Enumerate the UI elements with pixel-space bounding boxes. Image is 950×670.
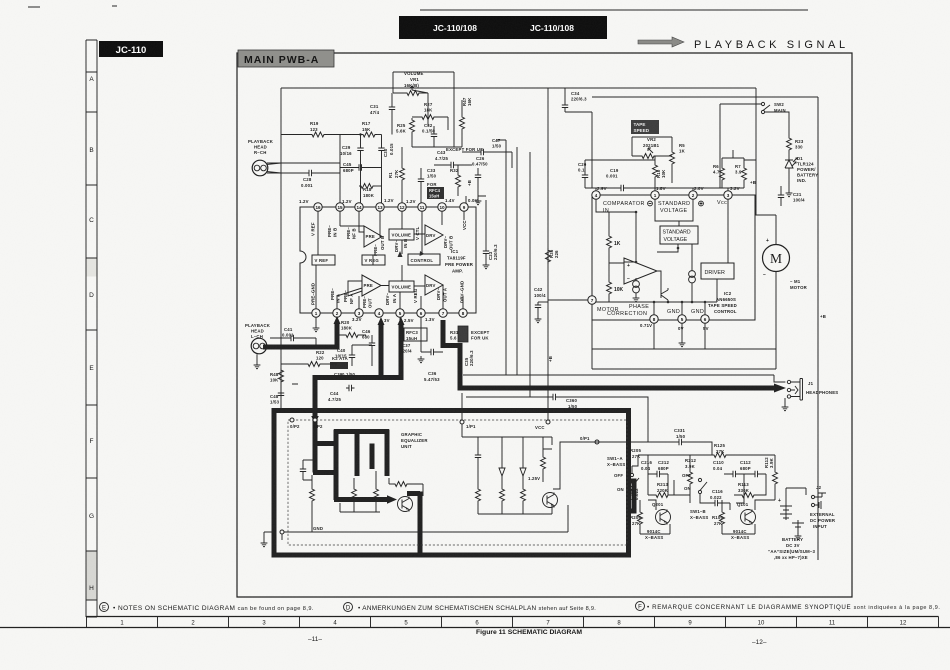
tape speed label	[631, 120, 659, 134]
pin 3	[724, 191, 732, 199]
pin 1	[651, 191, 659, 199]
capacitor C29	[340, 135, 364, 204]
pin 5	[678, 315, 686, 323]
resistor R23	[787, 136, 804, 157]
EQ diodes	[499, 468, 526, 476]
capacitor C21	[778, 174, 805, 206]
capacitor C40	[335, 345, 355, 366]
capacitor C19	[606, 168, 627, 191]
v ref block	[312, 255, 335, 265]
wire thick meander entry arrow	[313, 412, 318, 473]
capacitor C116	[710, 489, 723, 506]
node 0/P2	[290, 418, 294, 422]
capacitor C206 rotated	[629, 488, 639, 500]
EQ capacitor	[300, 466, 306, 475]
switch SW1-A	[607, 455, 639, 492]
wire thick after EQ transistor	[407, 492, 420, 556]
row letters A-H	[89, 76, 94, 592]
pin 8	[650, 315, 658, 323]
pin 12	[398, 203, 406, 211]
resistor R27	[412, 102, 448, 130]
node 0/P1	[595, 440, 599, 444]
trimmer VR2	[632, 137, 672, 159]
bottom labels	[597, 304, 704, 317]
capacitor C110	[713, 460, 744, 477]
wire thick pin7 to headphones	[441, 320, 461, 388]
jack J2	[811, 495, 814, 498]
wire y97 inner	[592, 97, 818, 560]
pin 11	[418, 203, 426, 211]
transistor Q201	[656, 510, 671, 525]
v reg block	[362, 255, 385, 265]
JC-110 model box top-left	[99, 41, 163, 57]
op-amp comparator triangle	[624, 258, 657, 284]
switch SW2	[720, 102, 789, 188]
capacitor C37	[400, 343, 437, 355]
resistor R212	[685, 455, 696, 495]
pin 10	[438, 203, 446, 211]
resistor R213	[648, 482, 674, 498]
playback head R-CH	[248, 139, 340, 176]
standard voltage block	[660, 226, 698, 244]
volume pot VR1	[393, 71, 454, 147]
inductor RFC4	[427, 187, 444, 199]
wire from pin9 region across	[421, 140, 506, 203]
EQ resistors	[310, 487, 315, 503]
control block	[408, 254, 440, 265]
capacitor C34	[562, 91, 587, 112]
EQ transistor Q	[398, 497, 413, 512]
node 1/P2	[313, 418, 317, 422]
pin 5	[396, 309, 404, 317]
trimmer K2	[330, 356, 348, 369]
pin 6	[417, 309, 425, 317]
resistor R48	[270, 368, 284, 384]
capacitor C41	[270, 327, 316, 346]
capacitor C39	[334, 372, 356, 377]
IC1 name label	[445, 249, 474, 274]
capacitor C36	[424, 371, 440, 382]
capacitor C45	[340, 162, 382, 173]
capacitor C331	[562, 428, 712, 455]
figure caption	[308, 629, 767, 646]
current source mid	[689, 271, 696, 278]
capacitor C43	[434, 150, 472, 168]
wire top rail	[281, 88, 756, 408]
op-amp PRE A	[362, 275, 381, 296]
driver block	[701, 263, 734, 279]
wire thick to EQ transistor	[334, 497, 388, 502]
pin 13	[376, 203, 384, 211]
capacitor C46	[362, 329, 375, 356]
wires above IC2	[565, 88, 756, 215]
bottom rail of IC2	[592, 272, 776, 370]
capacitor C30	[378, 135, 394, 204]
pin 8	[459, 309, 467, 317]
pin 3	[355, 309, 363, 317]
resistor R32	[450, 165, 461, 196]
pin 9	[460, 203, 468, 211]
capacitor C112	[740, 460, 766, 477]
pin labels bottom row	[311, 281, 465, 308]
resistor R36 rotated	[546, 248, 560, 264]
resistor R25	[396, 118, 415, 147]
resistor R10	[653, 156, 667, 188]
resistor R18	[359, 184, 382, 199]
capacitor C35 rotated	[464, 350, 474, 366]
pin 7	[588, 296, 596, 304]
capacitor C23	[483, 200, 498, 269]
pin 4	[375, 309, 383, 317]
motor M1	[755, 215, 808, 290]
wires joining	[412, 93, 462, 147]
wire verticals mid	[506, 140, 530, 397]
pin 2	[689, 191, 697, 199]
pin 14	[355, 203, 363, 211]
capacitor C216	[641, 460, 652, 471]
pin 2	[333, 309, 341, 317]
pin 15	[336, 203, 344, 211]
capacitor C32	[422, 123, 437, 147]
capacitor C31	[370, 93, 395, 135]
ground pin1	[315, 317, 317, 325]
pin 4	[592, 191, 600, 199]
resistor R6	[713, 158, 725, 188]
wire thick L-CH head to pin2	[263, 316, 786, 555]
pin 16	[314, 203, 322, 211]
op-amp DRV B	[425, 225, 443, 245]
resistor R1 27K rotated	[388, 147, 405, 203]
resistor R206	[630, 500, 643, 534]
op-amp U IC2 AN6650 body	[592, 195, 755, 320]
header title bar	[399, 10, 808, 39]
resistor 1K	[607, 234, 612, 250]
block labels	[603, 200, 727, 214]
resistor R31	[450, 326, 468, 342]
resistor R125	[712, 443, 728, 458]
resistor R20	[337, 320, 366, 338]
wire thick pins4/5 risers	[381, 324, 401, 375]
resistor R106	[712, 500, 725, 534]
current source below op-amp	[633, 281, 640, 288]
capacitor C26	[472, 156, 488, 196]
capacitor C28	[267, 135, 340, 204]
op-amp PRE B	[364, 226, 382, 247]
resistor R113	[734, 482, 762, 498]
node rail	[638, 455, 775, 462]
EQ resistor above transistor	[389, 483, 393, 485]
battery B1 cells	[780, 500, 792, 520]
resistor R5	[670, 137, 686, 183]
wire thick horizontal feed	[315, 375, 404, 412]
wire thick equalizer loop	[274, 411, 629, 556]
playback signal legend arrow	[638, 37, 849, 51]
wire thick meander	[313, 430, 389, 501]
internal wires IC1	[316, 211, 464, 309]
MAIN PWB-A label	[238, 50, 334, 67]
capacitor C44	[328, 385, 355, 402]
wires below	[292, 317, 443, 384]
node VCC	[546, 420, 550, 424]
IC2 name	[708, 291, 737, 314]
volume block B	[389, 229, 414, 240]
resistor R47	[460, 97, 473, 147]
capacitor C33	[418, 168, 438, 196]
resistor R19	[281, 121, 361, 137]
wire x548 main	[547, 88, 549, 420]
wire thick notch at x-bass	[629, 481, 635, 511]
EQ transistor right	[543, 493, 558, 508]
pin 6	[701, 315, 709, 323]
wire pin7 to left	[548, 299, 588, 301]
node 1/P1	[460, 420, 464, 424]
resistor R7	[735, 158, 747, 188]
transistor internal Q	[661, 288, 668, 302]
wires to 0/P1	[543, 442, 595, 489]
pin labels top row	[311, 220, 468, 256]
schematic outer border	[237, 53, 852, 597]
speck marks top left	[28, 6, 117, 7]
pin 7	[439, 309, 447, 317]
resistor R22	[281, 350, 330, 367]
capacitor C20	[578, 160, 588, 188]
capacitor C48	[270, 384, 284, 405]
volume block A	[389, 281, 414, 292]
EQ right network	[462, 424, 552, 514]
inductor RFC3	[400, 317, 427, 341]
LED D1	[785, 156, 818, 183]
left index strip	[86, 40, 97, 617]
x-bass connecting wires	[640, 455, 775, 534]
resistor R205	[630, 448, 641, 459]
C360 wire	[466, 394, 648, 442]
op-amp DRV A	[425, 275, 443, 295]
capacitor C42	[534, 287, 548, 323]
internal wires IC2	[596, 199, 728, 315]
capacitor C212	[648, 460, 669, 477]
resistor 10K	[607, 280, 612, 296]
resistor R112 rotated	[764, 457, 778, 500]
op-amp U IC1 TA8119F body	[299, 198, 478, 323]
pin 1	[312, 309, 320, 317]
transistor Q101	[741, 510, 756, 525]
pin voltage labels	[299, 198, 478, 323]
voltage labels	[597, 186, 740, 331]
capacitor C47	[462, 138, 512, 168]
resistor R17	[359, 121, 381, 137]
switch SW1-B	[682, 473, 708, 520]
jack J1	[787, 380, 790, 383]
playback head L-CH	[245, 323, 271, 369]
